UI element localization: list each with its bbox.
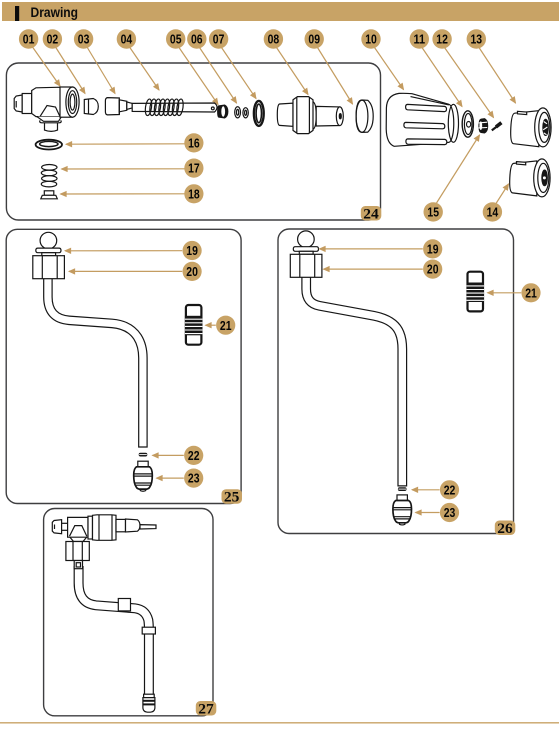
svg-text:24: 24 xyxy=(363,206,379,222)
svg-text:21: 21 xyxy=(220,319,232,333)
callout 22 (box 25) xyxy=(184,446,203,465)
leader 03 xyxy=(87,47,115,94)
callout 07 xyxy=(209,29,228,48)
leader 09 xyxy=(318,48,353,105)
wand 26: pipe xyxy=(306,275,402,487)
part 05 seal xyxy=(218,105,228,118)
part 17 spring xyxy=(41,165,57,187)
wand 25: tip ring 22 xyxy=(139,453,148,457)
callout 04 xyxy=(117,29,136,48)
svg-text:18: 18 xyxy=(188,187,200,201)
callout 02 xyxy=(43,29,62,48)
wand 27: union collar 2 xyxy=(142,627,155,634)
part 14 cap xyxy=(510,159,550,197)
leader 11 xyxy=(422,48,462,107)
callout 19 (box 25) xyxy=(183,241,202,260)
callout 10 xyxy=(361,29,380,48)
svg-text:02: 02 xyxy=(47,33,59,47)
wand 26: nozzle 23 xyxy=(393,495,412,525)
leader 14 xyxy=(496,184,509,204)
callout 15 xyxy=(424,202,443,221)
wand 27: union collar 1 xyxy=(118,599,130,611)
svg-text:22: 22 xyxy=(188,449,200,463)
svg-text:12: 12 xyxy=(436,33,448,47)
leader 19 (box 25) xyxy=(65,250,182,252)
part 18 seal xyxy=(41,191,58,199)
svg-text:07: 07 xyxy=(213,33,225,47)
box 26 xyxy=(278,229,514,534)
leader 12 xyxy=(445,48,494,118)
svg-text:20: 20 xyxy=(186,265,198,279)
callout 03 xyxy=(74,29,93,48)
svg-text:20: 20 xyxy=(427,263,439,277)
part 16 o-ring xyxy=(36,140,62,150)
part 07b o-ring xyxy=(254,101,264,126)
leader 02 xyxy=(56,47,86,94)
wand 26: ball joint xyxy=(290,231,322,277)
svg-text:04: 04 xyxy=(121,33,133,47)
callout 14 xyxy=(483,202,502,221)
svg-text:22: 22 xyxy=(444,483,456,497)
leader 23 (box 26) xyxy=(416,512,440,514)
callout 17 xyxy=(184,159,203,178)
svg-text:25: 25 xyxy=(224,490,240,506)
header tick xyxy=(15,6,19,21)
svg-text:17: 17 xyxy=(188,162,200,176)
svg-text:08: 08 xyxy=(268,33,280,47)
svg-text:21: 21 xyxy=(525,286,537,300)
callout 16 xyxy=(184,133,203,152)
callout 13 xyxy=(467,29,486,48)
callout 06 xyxy=(187,29,206,48)
callout 05 xyxy=(166,29,185,48)
svg-text:19: 19 xyxy=(186,244,198,258)
callout 19 (box 26) xyxy=(423,239,442,258)
svg-text:26: 26 xyxy=(497,521,513,537)
part 10 knob xyxy=(386,93,458,146)
part 02 cap xyxy=(84,99,98,115)
leader 16 xyxy=(66,143,185,145)
label 25 xyxy=(222,489,243,505)
part 06 washer xyxy=(235,107,241,118)
wand 27: tip nozzle xyxy=(143,694,155,712)
svg-text:23: 23 xyxy=(444,506,456,520)
valve 27 body xyxy=(52,515,156,569)
part 13 screw xyxy=(492,123,502,131)
svg-text:10: 10 xyxy=(365,33,377,47)
wand 27: pipe xyxy=(79,565,149,695)
leader 22 (box 26) xyxy=(412,489,440,491)
svg-text:19: 19 xyxy=(427,243,439,257)
part 11 washer xyxy=(462,111,473,137)
svg-text:05: 05 xyxy=(170,33,182,47)
leader 04 xyxy=(130,47,160,90)
callout 08 xyxy=(264,29,283,48)
leader 21 (box 25) xyxy=(206,324,216,326)
callout 01 xyxy=(19,29,38,48)
callout 21 (box 25) xyxy=(216,316,235,335)
svg-text:11: 11 xyxy=(414,33,426,47)
callout 23 (box 26) xyxy=(440,503,459,522)
part 12 locknut xyxy=(478,118,488,133)
callout 20 (box 26) xyxy=(423,260,442,279)
part 08 union fitting xyxy=(277,97,343,134)
part 09 nut xyxy=(356,100,373,132)
leader 06 xyxy=(200,48,237,104)
leader 20 (box 26) xyxy=(324,268,423,270)
wand 25: ball joint xyxy=(33,232,65,278)
box 24 xyxy=(6,63,380,220)
svg-text:13: 13 xyxy=(471,33,483,47)
svg-text:23: 23 xyxy=(188,472,200,486)
header bar xyxy=(2,2,559,21)
callout 23 (box 25) xyxy=(184,469,203,488)
leader 21 (box 26) xyxy=(488,292,522,294)
box 27 xyxy=(44,509,213,716)
leader 18 xyxy=(61,193,185,195)
part 21 bleed valve (box 26) xyxy=(467,272,485,312)
wand 26: tip ring 22 xyxy=(398,487,407,491)
callout 09 xyxy=(305,29,324,48)
callout 18 xyxy=(184,184,203,203)
svg-text:01: 01 xyxy=(23,33,35,47)
wand 25: pipe xyxy=(48,275,143,448)
leader 20 (box 25) xyxy=(69,270,182,272)
leader 07 xyxy=(222,48,257,99)
part 07 washer xyxy=(243,108,248,118)
leader 05 xyxy=(179,48,218,105)
label 26 xyxy=(495,521,516,537)
svg-text:09: 09 xyxy=(308,33,320,47)
part 21 bleed valve (box 25) xyxy=(185,305,203,345)
leader 08 xyxy=(277,48,309,95)
leader 22 (box 25) xyxy=(153,454,184,456)
svg-text:27: 27 xyxy=(198,701,214,717)
wand 25: nozzle 23 xyxy=(134,461,153,491)
leader 01 xyxy=(33,47,61,86)
label 24 xyxy=(361,206,382,222)
callout 22 (box 26) xyxy=(440,480,459,499)
callout 12 xyxy=(432,29,451,48)
svg-text:03: 03 xyxy=(78,33,90,47)
leader 13 xyxy=(479,48,516,104)
part 01 valve body xyxy=(14,87,79,131)
part 03 plunger xyxy=(105,98,217,115)
svg-text:15: 15 xyxy=(427,206,439,220)
svg-text:Drawing: Drawing xyxy=(31,5,79,20)
bottom rule xyxy=(0,722,559,724)
svg-text:16: 16 xyxy=(188,137,200,151)
callout 11 xyxy=(410,29,429,48)
leader 15 xyxy=(437,135,480,203)
part 13b cap xyxy=(511,108,551,147)
box 25 xyxy=(6,229,241,503)
svg-text:14: 14 xyxy=(487,206,499,220)
part 04 spring xyxy=(144,99,184,116)
leader 23 (box 25) xyxy=(157,477,184,479)
callout 20 (box 25) xyxy=(183,262,202,281)
leader 10 xyxy=(375,48,404,90)
label 27 xyxy=(196,701,217,717)
callout 21 (box 26) xyxy=(521,283,540,302)
leader 17 xyxy=(62,168,185,170)
svg-text:06: 06 xyxy=(191,33,203,47)
leader 19 (box 26) xyxy=(320,248,423,250)
